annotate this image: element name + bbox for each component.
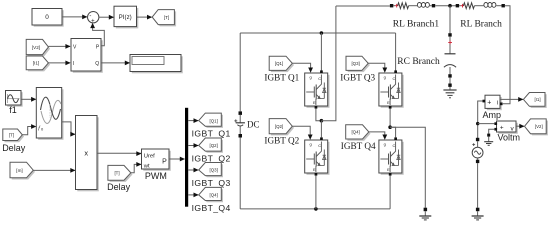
wire junction to Voltm plus — [478, 123, 495, 125]
svg-text:[Q3]: [Q3] — [351, 61, 359, 66]
DC source — [234, 111, 245, 137]
svg-text:Delay: Delay — [2, 143, 26, 153]
svg-text:[V2]: [V2] — [32, 45, 40, 50]
goto tag Q3 — [199, 163, 223, 178]
junction bottom rail — [314, 207, 318, 211]
svg-text:[T]: [T] — [114, 171, 119, 176]
wire load return down — [503, 6, 510, 104]
wire right midpoint to ground — [390, 127, 425, 208]
from tag I1 — [26, 56, 50, 71]
svg-text:IGBT Q1: IGBT Q1 — [264, 72, 299, 82]
from tag m — [10, 162, 35, 179]
IGBT Q2 — [305, 137, 330, 175]
wire Q1 emitter to midpoint — [316, 109, 322, 121]
svg-text:Delay: Delay — [107, 182, 131, 192]
svg-text:IGBT_Q3: IGBT_Q3 — [192, 178, 231, 188]
svg-text:+: + — [91, 18, 95, 24]
current measurement Amp — [483, 95, 503, 110]
junction right midpoint — [388, 125, 392, 129]
svg-text:IGBT_Q2: IGBT_Q2 — [192, 153, 231, 163]
IGBT Q3 — [379, 70, 404, 108]
svg-text:IGBT_Q1: IGBT_Q1 — [192, 129, 231, 139]
svg-text:i: i — [497, 100, 498, 106]
svg-text:[Q2]: [Q2] — [210, 143, 218, 148]
goto tag V2 — [525, 119, 548, 135]
PI(z) controller block — [114, 6, 138, 28]
ground right leg — [419, 208, 431, 220]
svg-text:RL Branch1: RL Branch1 — [393, 19, 440, 29]
wire product to PWM Uref — [97, 151, 142, 156]
wire sum to PI(z) — [99, 15, 114, 20]
svg-text:+: + — [487, 100, 491, 107]
svg-text:IGBT Q3: IGBT Q3 — [340, 72, 375, 82]
wire Q4 emitter to bottom rail — [389, 176, 391, 209]
svg-text:P: P — [162, 159, 167, 166]
svg-text:[m]: [m] — [16, 168, 22, 173]
wire load tap left leg — [321, 6, 336, 121]
svg-text:[Q3]: [Q3] — [210, 168, 218, 173]
wire DC bus left vertical bottom — [239, 138, 241, 209]
from tag V2 — [26, 39, 50, 56]
svg-text:RL Branch: RL Branch — [460, 19, 502, 29]
svg-text:wt: wt — [143, 164, 150, 170]
svg-text:IGBT_Q4: IGBT_Q4 — [192, 203, 231, 213]
wire Voltm minus to ground — [487, 129, 494, 141]
svg-text:[Q4]: [Q4] — [351, 130, 359, 135]
from tag T delay 1 — [3, 129, 24, 142]
goto tag Q4 — [199, 187, 223, 202]
IGBT Q4 — [379, 137, 404, 175]
svg-text:Q: Q — [95, 61, 99, 67]
wire delay1 to f0 input — [22, 124, 36, 135]
goto tag T — [152, 10, 176, 27]
VCO block — [36, 88, 63, 140]
wire demux to Q3 — [188, 168, 199, 173]
svg-text:Voltm: Voltm — [498, 133, 521, 143]
display block — [130, 55, 183, 74]
svg-text:[I1]: [I1] — [33, 61, 39, 66]
RL Branch — [456, 3, 505, 9]
svg-text:IGBT Q2: IGBT Q2 — [264, 136, 299, 146]
svg-text:I: I — [73, 61, 74, 67]
svg-text:[Q4]: [Q4] — [210, 193, 218, 198]
junction left midpoint — [320, 119, 324, 123]
wire Q2 gate — [292, 126, 312, 140]
wire top rail to Q1 collector — [320, 33, 322, 71]
wire demux to Q2 — [188, 143, 199, 148]
demux bar — [185, 108, 188, 207]
svg-text:x: x — [84, 148, 88, 157]
wire top load left segment — [336, 5, 390, 7]
wire midpoint to Q2 collector — [320, 121, 322, 138]
wire Amp plus terminal down — [478, 101, 483, 139]
wire top rail — [240, 32, 395, 34]
svg-text:PI(z): PI(z) — [119, 14, 132, 21]
svg-text:Amp: Amp — [483, 110, 502, 120]
from tag T delay 2 — [108, 165, 133, 182]
sine source f1 — [6, 91, 23, 107]
constant block 0 — [32, 9, 64, 27]
AC source — [472, 138, 483, 163]
wire PWM to demux — [169, 157, 185, 162]
wire AC source to ground — [476, 163, 480, 216]
wire Q2 emitter to bottom rail — [315, 176, 317, 209]
wire demux to Q4 — [188, 193, 199, 198]
svg-text:RC Branch: RC Branch — [397, 57, 440, 67]
svg-text:PWM: PWM — [145, 171, 167, 181]
from tag Q4 gate — [346, 125, 371, 141]
RC branch capacitor — [444, 6, 456, 90]
power measurement block PQ — [71, 39, 103, 73]
wire Q3 emitter to midpoint — [389, 109, 391, 128]
wire DC bus left vertical top — [239, 33, 241, 111]
wire demux to Q1 — [188, 118, 199, 123]
svg-text:[I1]: [I1] — [534, 97, 540, 102]
svg-text:+: + — [500, 125, 504, 132]
RL Branch1 — [390, 3, 435, 9]
goto tag Q2 — [199, 138, 223, 153]
junction top rail — [320, 31, 324, 35]
wire Q to display — [101, 61, 130, 66]
wire Q1 gate — [292, 63, 313, 72]
wire Q4 gate — [369, 132, 387, 140]
wire Q3 gate — [368, 63, 387, 72]
svg-text:DC: DC — [247, 120, 260, 130]
wire bottom rail — [240, 208, 390, 210]
IGBT Q1 — [305, 70, 330, 108]
from tag Q1 gate — [269, 56, 294, 72]
svg-text:[V2]: [V2] — [535, 124, 543, 129]
svg-text:[Q1]: [Q1] — [275, 61, 283, 66]
svg-text:[T]: [T] — [9, 133, 14, 138]
wire I1 to I input — [48, 61, 70, 66]
svg-text:Uref: Uref — [144, 154, 155, 160]
ground Voltm — [484, 142, 493, 146]
wire Voltm output to V2 — [516, 124, 525, 129]
ground AC source — [472, 216, 484, 220]
wire between branches — [435, 5, 457, 7]
wire Amp output to I1 — [500, 97, 523, 102]
wire top rail to Q3 collector — [395, 33, 397, 71]
wire m to product — [33, 168, 75, 173]
goto tag Q1 — [199, 113, 223, 128]
wire V2 to V input — [48, 44, 70, 49]
svg-text:[T]: [T] — [164, 15, 169, 20]
wire f1 to VCO — [21, 97, 36, 102]
voltage measurement Voltm — [494, 121, 517, 134]
wire constant to sum — [62, 15, 87, 20]
wire midpoint to Q4 collector — [390, 127, 396, 137]
svg-text:f1: f1 — [9, 105, 17, 115]
goto tag I1 — [523, 93, 546, 109]
feedback wire P to sum — [90, 23, 104, 46]
svg-text:[Q2]: [Q2] — [275, 124, 283, 129]
product block x — [76, 116, 99, 192]
wire VCO to product — [62, 122, 76, 137]
PWM block — [142, 149, 171, 171]
wire PI(z) to goto T — [137, 15, 153, 20]
ground RC branch — [443, 90, 456, 98]
wire delay2 to PWM wt — [131, 162, 142, 173]
from tag Q3 gate — [346, 56, 370, 72]
from tag Q2 gate — [269, 119, 294, 136]
svg-text:[Q1]: [Q1] — [210, 118, 218, 123]
svg-text:0: 0 — [45, 14, 49, 21]
sum block — [88, 12, 99, 25]
junction capacitor tap — [448, 4, 452, 8]
svg-text:IGBT Q4: IGBT Q4 — [341, 141, 376, 151]
junction Voltm plus — [476, 122, 479, 125]
